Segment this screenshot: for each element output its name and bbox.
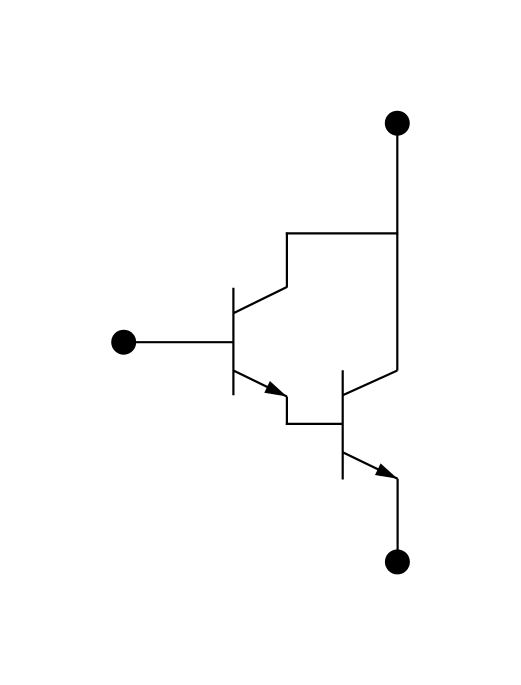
transistor Q1 <box>233 287 287 397</box>
wire top terminal to Q2 collector (vertical) <box>396 123 398 370</box>
node emitter terminal (bottom dot) <box>385 549 410 574</box>
wire base terminal to Q1 base (horizontal) <box>124 341 234 343</box>
wire Q2 emitter to bottom terminal (vertical) <box>397 479 399 562</box>
node collector terminal (top dot) <box>385 111 410 136</box>
wire Q1 emitter to Q2 base (horizontal) <box>286 423 343 425</box>
wire Q1 emitter drop (vertical) <box>286 397 288 426</box>
node base terminal (left dot) <box>111 330 136 355</box>
wire Q1 collector drop (vertical) <box>286 232 288 287</box>
wire Q1 collector branch (horizontal) <box>286 232 399 234</box>
transistor Q2 <box>343 370 398 479</box>
